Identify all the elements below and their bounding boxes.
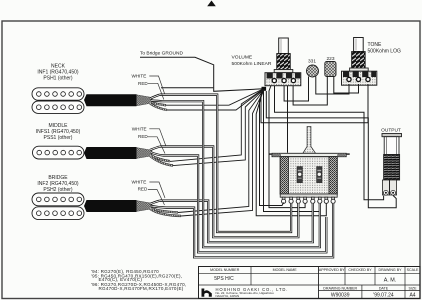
svg-text:MODEL NAME: MODEL NAME [273, 268, 298, 272]
wire cap331 right leg to tone lug1 [316, 77, 349, 95]
wire to-bridge-ground [140, 57, 263, 91]
svg-text:WHITE: WHITE [132, 73, 147, 78]
wire fan to output jack sleeve [266, 91, 396, 208]
svg-text:TONE: TONE [368, 42, 382, 48]
svg-text:RG470D-X,RG470FM,RX170,E470(E): RG470D-X,RG470FM,RX170,E470(E) [99, 286, 184, 291]
wire middle red to switch lug7 [163, 156, 326, 253]
potentiometer VOLUME 500Kohm LINEAR [265, 38, 301, 86]
switch lugs 1-8 [282, 197, 336, 203]
svg-text:OUTPUT: OUTPUT [381, 128, 401, 134]
svg-text:VOLUME: VOLUME [232, 55, 253, 61]
svg-text:PSH2 (other): PSH2 (other) [43, 187, 73, 193]
To Bridge GROUND label [140, 51, 183, 57]
svg-text:WHITE: WHITE [132, 179, 147, 184]
potentiometer TONE 500Kohm LOG [342, 38, 377, 86]
wire neck shield to fan [165, 89, 264, 110]
svg-text:NAGOYA, JAPAN: NAGOYA, JAPAN [216, 294, 240, 298]
switch slot B [317, 167, 322, 183]
wire fan to switch lug1 [260, 89, 284, 206]
capacitor 331 disc [307, 65, 319, 77]
svg-text:'99.07.24: '99.07.24 [373, 293, 394, 299]
svg-text:APPROVED BY: APPROVED BY [319, 268, 345, 272]
middle WHITE RED wire labels [132, 126, 166, 153]
svg-text:DRAWING BY: DRAWING BY [378, 268, 402, 272]
output jack [382, 134, 402, 196]
wire neck red to switch lug6 [163, 101, 320, 247]
svg-text:SIZE: SIZE [409, 286, 418, 290]
capacitor 223 value label [326, 56, 334, 62]
svg-text:500Kohm LINEAR: 500Kohm LINEAR [232, 61, 272, 67]
svg-text:RED: RED [138, 81, 148, 86]
wire volume casing to output jack tip [275, 86, 384, 200]
pickup BRIDGE humbucker [32, 193, 84, 220]
Hoshino Gakki company text [216, 287, 289, 298]
svg-text:RED: RED [138, 134, 148, 139]
bridge pickup cable [84, 200, 152, 212]
output jack label [381, 128, 401, 134]
svg-text:331: 331 [308, 59, 316, 65]
neck cable wire tails [150, 95, 167, 110]
5-way switch body [280, 157, 337, 194]
pickup NECK humbucker [32, 88, 84, 114]
svg-text:W90039: W90039 [331, 293, 350, 299]
svg-text:WHITE: WHITE [132, 126, 147, 131]
top center registration triangle mark [207, 1, 216, 7]
tone pot label [368, 42, 401, 55]
title block header texts [210, 268, 419, 290]
svg-text:DATE: DATE [379, 286, 389, 290]
svg-text:5PS H/C: 5PS H/C [214, 276, 234, 282]
pickup BRIDGE label [37, 175, 78, 193]
switch lug strip [280, 194, 337, 197]
pickup MIDDLE single coil [33, 146, 85, 159]
5-way switch lever [303, 127, 316, 154]
svg-text:SCALE: SCALE [407, 268, 419, 272]
Hoshino Gakki logo [202, 289, 212, 297]
svg-text:To Bridge GROUND: To Bridge GROUND [140, 51, 183, 57]
wire volume lug1 to switch lug4 [269, 86, 305, 208]
wire tone lug3 ground return to fan [261, 84, 368, 123]
wire bridge shield to fan [178, 89, 264, 216]
svg-text:RED: RED [138, 187, 148, 192]
fitment notes '94 '95 '96 models [91, 269, 186, 291]
svg-text:A. M.: A. M. [384, 278, 397, 284]
bridge cable wire tails [150, 201, 181, 216]
middle pickup cable [84, 147, 152, 159]
switch slot A [297, 167, 302, 183]
wire middle shield to fan [170, 89, 264, 166]
title block frame [199, 267, 421, 299]
wire fan down to switch lug6 net [264, 90, 320, 212]
wire neck white to switch lug2 [160, 95, 291, 232]
volume pot label [232, 55, 272, 68]
wire bridge white to switch lug5 [160, 201, 313, 243]
capacitor 331 value label [308, 59, 316, 65]
pickup NECK label [37, 64, 78, 82]
neck WHITE RED wire labels [132, 73, 165, 99]
svg-text:PSS1 (other): PSS1 (other) [44, 135, 73, 141]
wire volume lug3 to cap223 left leg [293, 76, 327, 105]
pickup MIDDLE label [36, 123, 81, 141]
svg-text:CHECKED BY: CHECKED BY [348, 268, 372, 272]
neck pickup cable [84, 94, 152, 106]
wire fan to switch lug7 ground [256, 89, 326, 216]
svg-text:MODEL NUMBER: MODEL NUMBER [210, 268, 240, 272]
capacitor 223 box [325, 62, 336, 77]
svg-text:500Kohm LOG: 500Kohm LOG [368, 49, 401, 55]
wire cap223 right leg to tone lug2 [334, 76, 359, 93]
wire bridge red to switch lug8 [166, 203, 333, 257]
wire volume lug2 to cap331 left leg [284, 77, 308, 102]
5-way switch mounting plate [269, 153, 350, 156]
svg-text:DRAWING NUMBER: DRAWING NUMBER [323, 286, 357, 290]
svg-text:PSH1 (other): PSH1 (other) [43, 76, 73, 82]
title block value texts [214, 276, 415, 299]
wire neck area ground run [161, 87, 213, 89]
ground fan junction on volume pot [262, 87, 267, 91]
wire middle white to switch lug3 [160, 147, 298, 238]
svg-text:A4: A4 [409, 292, 415, 298]
wire volume lug2 to switch frame [287, 86, 289, 153]
middle cable wire tails [150, 147, 173, 166]
bridge WHITE RED wire labels [132, 179, 166, 205]
